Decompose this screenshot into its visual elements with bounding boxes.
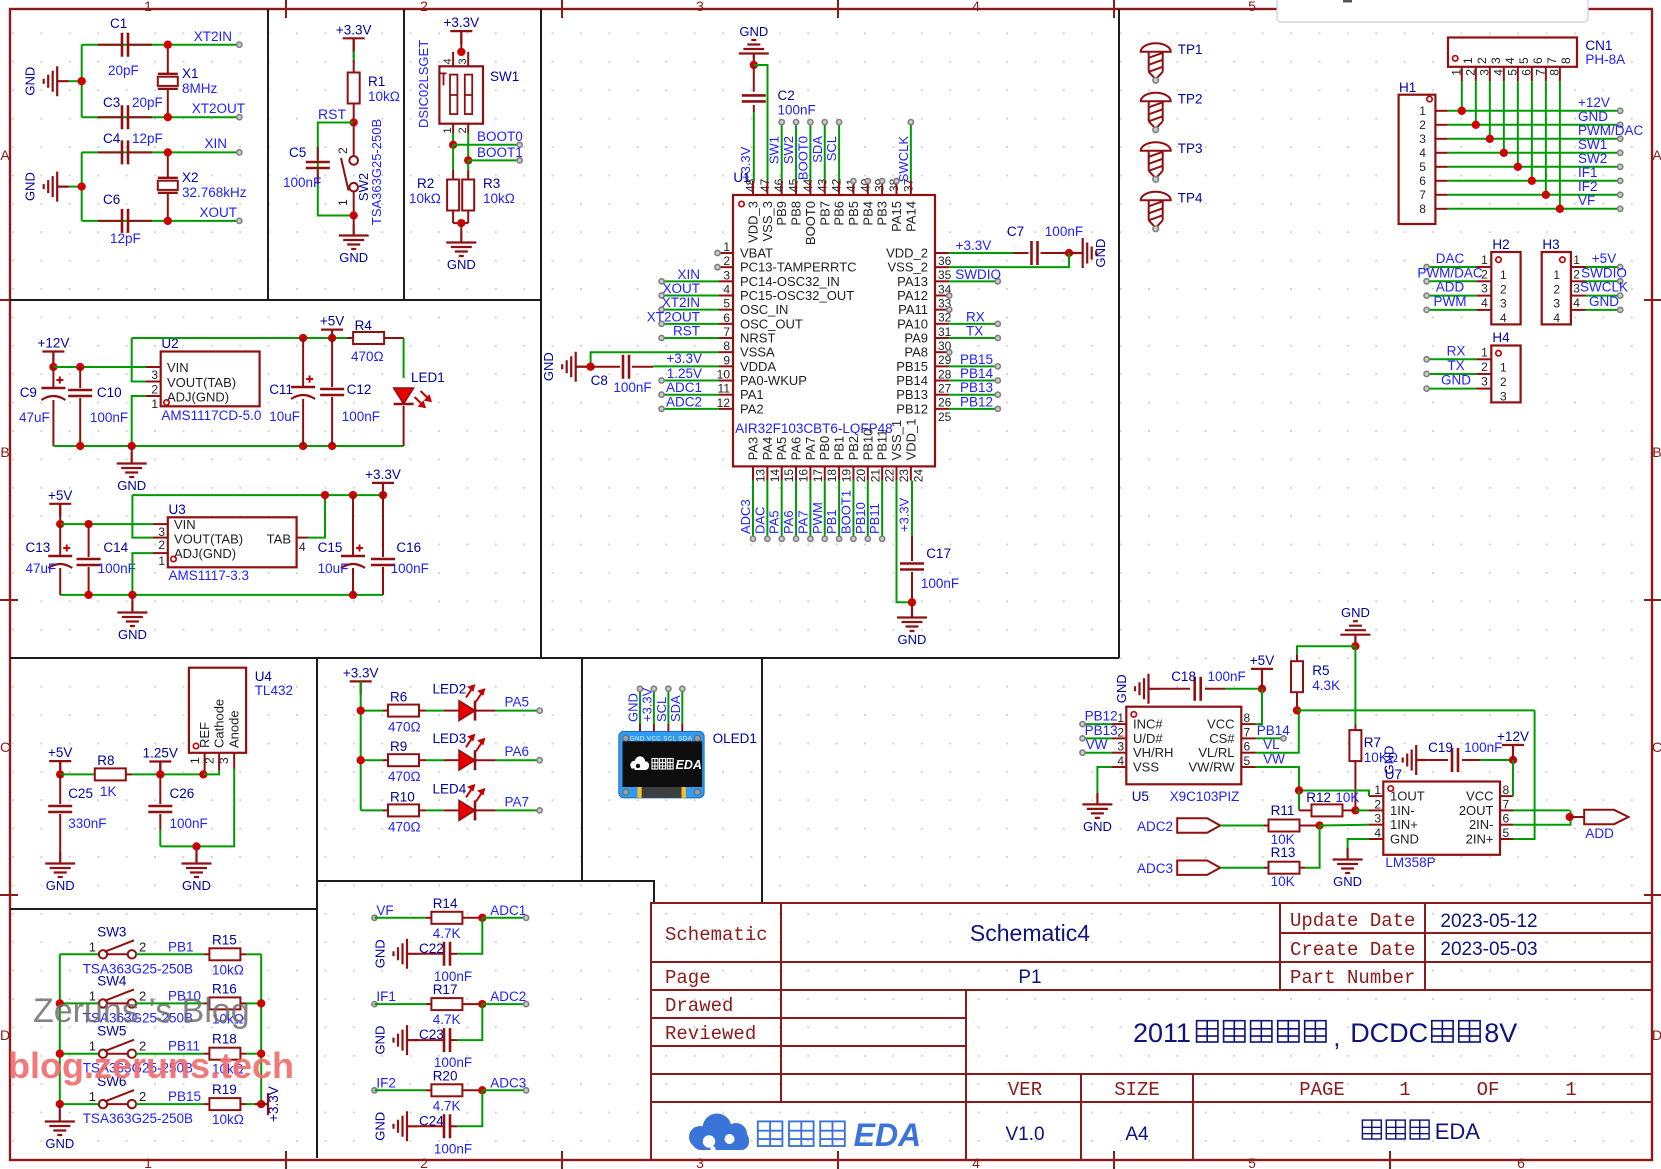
svg-text:Drawed: Drawed: [665, 995, 733, 1017]
svg-text:X2: X2: [182, 170, 199, 185]
svg-text:2IN-: 2IN-: [1469, 817, 1494, 832]
ground GND C18: [1135, 674, 1160, 704]
wire VL rail: [1297, 709, 1535, 711]
svg-text:GND: GND: [1578, 109, 1608, 124]
svg-text:2: 2: [151, 383, 158, 397]
svg-text:1: 1: [1419, 104, 1426, 118]
svg-text:VSS_1: VSS_1: [889, 420, 904, 460]
svg-text:+5V: +5V: [48, 745, 72, 760]
svg-text:+5V: +5V: [320, 314, 344, 329]
svg-text:BOOT1: BOOT1: [838, 490, 853, 534]
ground GND C23: [394, 1025, 419, 1055]
capacitor C2 100nF: [753, 65, 755, 92]
svg-text:8: 8: [1419, 202, 1426, 216]
ground GND U2 block: [131, 446, 133, 452]
oled pin wires: [639, 724, 641, 731]
svg-text:4: 4: [1117, 754, 1124, 768]
svg-text:GND: GND: [182, 878, 211, 893]
svg-text:REF: REF: [197, 722, 212, 748]
voltage reference U4 TL432: [189, 668, 246, 753]
svg-text:Create Date: Create Date: [1290, 939, 1415, 961]
svg-text:PB5: PB5: [846, 201, 861, 226]
svg-text:8: 8: [1503, 783, 1510, 797]
ground GND crystal X2 group: [69, 186, 82, 188]
svg-text:10: 10: [717, 368, 731, 382]
svg-text:4: 4: [299, 540, 306, 554]
pin 29 port: [947, 350, 952, 355]
junction SW1 top: [457, 48, 465, 56]
svg-text:1: 1: [151, 397, 158, 411]
resistor R8 1K: [95, 773, 99, 775]
net port PA5: [537, 708, 542, 713]
svg-text:PB1: PB1: [832, 436, 847, 461]
ground GND R5 top: [1340, 621, 1370, 646]
ground GND top mcu: [739, 40, 769, 65]
wire net SDA pin 43: [824, 122, 826, 181]
svg-text:46: 46: [772, 178, 786, 192]
svg-text:R9: R9: [390, 739, 407, 754]
svg-text:GND: GND: [626, 693, 641, 722]
capacitor C15 10uF: [352, 495, 354, 555]
svg-text:100nF: 100nF: [283, 175, 321, 190]
wire GND H4 pin 3: [1476, 388, 1491, 390]
capacitor C13 47uF: [59, 524, 61, 556]
svg-text:1: 1: [1573, 253, 1580, 267]
svg-text:PA0-WKUP: PA0-WKUP: [740, 373, 807, 388]
svg-text:470Ω: 470Ω: [388, 769, 421, 784]
wire VDD_2 +3.3V pin 36: [949, 252, 1013, 254]
svg-text:4: 4: [1553, 311, 1560, 325]
svg-text:U3: U3: [169, 502, 186, 517]
wire net XIN pin 3: [662, 280, 719, 282]
wire ADC2 pin 12: [662, 408, 719, 410]
capacitor C23 100nF: [450, 1039, 457, 1041]
svg-text:PB8: PB8: [789, 201, 804, 226]
junction XT2IN: [164, 41, 172, 49]
svg-text:43: 43: [815, 178, 829, 192]
junction C15 bottom: [349, 591, 357, 599]
svg-text:ADJ(GND): ADJ(GND): [167, 390, 229, 405]
svg-text:H1: H1: [1399, 80, 1416, 95]
resistor R14 4.7K: [426, 917, 431, 919]
svg-text:VCC: VCC: [1466, 789, 1493, 804]
junction C11 bottom: [299, 442, 307, 450]
svg-text:GND: GND: [1341, 605, 1370, 620]
svg-text:2: 2: [1419, 118, 1426, 132]
svg-text:1.25V: 1.25V: [143, 746, 178, 761]
wire led bus: [360, 681, 362, 810]
ground GND U5: [1082, 793, 1112, 818]
svg-text:VDDA: VDDA: [740, 359, 776, 374]
svg-text:GND: GND: [1589, 294, 1619, 309]
svg-text:C19: C19: [1428, 740, 1453, 755]
resistor R6 470: [361, 710, 383, 712]
wire net SWCLK pin 37: [910, 122, 912, 181]
junction C7 gnd: [1065, 249, 1073, 257]
resistor R10 470: [361, 809, 383, 811]
svg-text:VL/RL: VL/RL: [1198, 745, 1234, 760]
wire net PB1: [135, 953, 204, 955]
svg-text:3: 3: [1489, 57, 1503, 64]
svg-text:PB14: PB14: [896, 373, 928, 388]
svg-text:+3.3V: +3.3V: [956, 238, 992, 253]
net port IF2: [1618, 192, 1623, 197]
net port SW2: [1618, 164, 1623, 169]
junction R11 R13: [1315, 821, 1323, 829]
svg-text:LM358P: LM358P: [1385, 855, 1435, 870]
svg-text:10K: 10K: [1271, 874, 1295, 889]
svg-text:LED4: LED4: [433, 781, 467, 796]
pin 41 port: [851, 178, 856, 183]
resistor R15 10k: [204, 953, 209, 955]
svg-text:U4: U4: [255, 669, 273, 684]
wire 1OUT feedback: [1299, 791, 1369, 797]
svg-text:C10: C10: [97, 385, 122, 400]
svg-text:VIN: VIN: [167, 360, 189, 375]
junction BOOT1: [464, 156, 472, 164]
svg-text:PB7: PB7: [817, 201, 832, 226]
svg-text:PA1: PA1: [740, 387, 764, 402]
ground GND C26: [196, 846, 198, 852]
switch SW3 TSA363G25-250B: [60, 953, 100, 955]
svg-text:SW2: SW2: [781, 136, 796, 164]
svg-text:20pF: 20pF: [132, 95, 163, 110]
svg-text:7: 7: [1244, 725, 1251, 739]
svg-text:R8: R8: [97, 753, 114, 768]
net port XOUT: [237, 218, 242, 223]
svg-text:C13: C13: [26, 540, 51, 555]
net port SW1: [1618, 150, 1623, 155]
svg-text:C6: C6: [103, 192, 120, 207]
pin 1 ADJ U2: [146, 395, 161, 397]
resistor R3: [467, 160, 469, 170]
svg-text:4: 4: [1374, 826, 1381, 840]
wire net PB15: [949, 365, 998, 367]
resistor R16 10k: [204, 1002, 209, 1004]
svg-text:blog.zeruns.tech: blog.zeruns.tech: [8, 1045, 294, 1086]
mcu pin names and numbers: [717, 178, 952, 482]
svg-text:IF2: IF2: [376, 1075, 396, 1090]
input port ADC2: [1177, 818, 1220, 832]
svg-text:4: 4: [972, 1155, 980, 1169]
svg-text:PA5: PA5: [774, 437, 789, 461]
svg-text:INC#: INC#: [1133, 717, 1163, 732]
svg-text:C7: C7: [1007, 224, 1024, 239]
svg-text:21: 21: [868, 469, 882, 483]
power flag +12V U7: [1502, 745, 1524, 758]
wire XT2IN net: [82, 44, 168, 46]
junction 1.25V C26: [156, 770, 164, 778]
svg-text:7: 7: [1503, 797, 1510, 811]
svg-text:25: 25: [938, 410, 952, 424]
junction ADJ gnd: [128, 442, 136, 450]
svg-text:PB10: PB10: [853, 502, 868, 534]
svg-text:100nF: 100nF: [1208, 669, 1246, 684]
capacitor C26 100nF: [159, 774, 161, 804]
svg-text:X1: X1: [182, 66, 199, 81]
mcu top pin stubs: [753, 181, 911, 195]
net port XT2OUT: [237, 115, 242, 120]
net port VF: [372, 915, 377, 920]
resistor R19 10k: [204, 1103, 209, 1105]
svg-text:XT2OUT: XT2OUT: [192, 101, 245, 116]
svg-text:BOOT0: BOOT0: [795, 136, 810, 180]
LED LED1: [403, 338, 405, 378]
svg-text:1: 1: [1481, 345, 1488, 359]
wire feedback to R12: [1298, 791, 1300, 811]
svg-text:+3.3V: +3.3V: [336, 22, 372, 37]
svg-text:D: D: [0, 1027, 10, 1043]
ground GND crystal X1 group: [69, 80, 82, 82]
wire SWDIO pin 34: [949, 280, 998, 282]
wire left vertical X2 group: [81, 152, 83, 221]
svg-text:1IN+: 1IN+: [1390, 817, 1418, 832]
svg-text:VF: VF: [376, 903, 393, 918]
svg-text:PB15: PB15: [960, 352, 993, 367]
wire R13 up to junction: [1305, 826, 1320, 868]
svg-text:PB15: PB15: [168, 1089, 201, 1104]
svg-text:PB13: PB13: [960, 380, 993, 395]
svg-text:TL432: TL432: [255, 683, 293, 698]
svg-text:PA11: PA11: [898, 302, 928, 317]
wire net PA5 pin 15: [781, 481, 783, 539]
svg-text:VL: VL: [1263, 737, 1280, 752]
wire anode to gnd: [160, 768, 234, 846]
svg-text:16: 16: [797, 469, 811, 483]
svg-text:+3.3V: +3.3V: [738, 146, 753, 181]
wire VCC pin8 U7: [1512, 760, 1514, 796]
svg-text:470Ω: 470Ω: [351, 349, 384, 364]
svg-text:+3.3V: +3.3V: [365, 467, 401, 482]
wire RX H4 pin 1: [1476, 358, 1491, 360]
svg-text:100nF: 100nF: [921, 576, 959, 591]
svg-text:R2: R2: [417, 176, 434, 191]
section partition lines: [10, 9, 1119, 1158]
svg-text:24: 24: [911, 469, 925, 483]
junction REF: [199, 770, 207, 778]
svg-text:GND: GND: [1114, 674, 1129, 703]
pin 2 VOUT U2: [146, 381, 161, 383]
svg-text:+5V: +5V: [48, 488, 72, 503]
svg-text:SWCLK: SWCLK: [896, 136, 911, 183]
svg-text:RST: RST: [318, 106, 346, 122]
wire net PB10: [135, 1002, 204, 1004]
wire net PA6: [496, 759, 540, 761]
svg-text:100nF: 100nF: [434, 1141, 472, 1156]
net port ADC1: [482, 917, 526, 919]
net port GND: [1618, 122, 1623, 127]
svg-text:AMS1117-3.3: AMS1117-3.3: [169, 568, 250, 583]
svg-text:GND: GND: [118, 627, 147, 642]
svg-text:PB9: PB9: [774, 201, 789, 226]
svg-text:H3: H3: [1542, 237, 1559, 252]
svg-text:R7: R7: [1364, 735, 1381, 750]
svg-text:PB1: PB1: [824, 509, 839, 534]
wire SWDIO H3 pin 2: [1571, 280, 1586, 282]
svg-text:+12V: +12V: [37, 336, 69, 351]
svg-text:1: 1: [1500, 360, 1507, 374]
junction C15 top: [349, 491, 357, 499]
junction led bus 2: [357, 756, 365, 764]
junction C10 top: [76, 363, 84, 371]
junction RST node: [350, 118, 358, 126]
resistor R12 10K: [1299, 809, 1312, 811]
junction C12 bottom: [328, 442, 336, 450]
svg-text:PA2: PA2: [740, 401, 764, 416]
svg-text:47uF: 47uF: [19, 410, 50, 425]
svg-text:47uF: 47uF: [26, 561, 57, 576]
svg-text:V1.0: V1.0: [1005, 1124, 1044, 1145]
svg-text:Zeruns ’s Blog: Zeruns ’s Blog: [33, 992, 250, 1030]
capacitor C22 100nF: [450, 953, 457, 955]
wire VSS_3 gnd pin 47: [754, 65, 768, 181]
wire net BOOT0 pin 44: [809, 122, 811, 181]
wire net PB10 pin 21: [867, 481, 869, 539]
mcu left pin stubs: [719, 253, 733, 409]
svg-text:P1: P1: [1018, 967, 1041, 988]
wire VSS pin4 to gnd: [1097, 767, 1112, 793]
svg-text:C8: C8: [591, 373, 608, 388]
svg-text:1: 1: [188, 757, 202, 764]
junction BOOT0: [449, 141, 457, 149]
svg-text:12: 12: [717, 396, 731, 410]
svg-text:R10: R10: [390, 789, 415, 804]
svg-text:5: 5: [1419, 160, 1426, 174]
svg-text:VSS_2: VSS_2: [888, 260, 928, 275]
svg-text:2: 2: [1475, 57, 1489, 64]
svg-text:GND: GND: [1083, 819, 1112, 834]
svg-text:U7: U7: [1385, 767, 1402, 782]
svg-text:H4: H4: [1492, 330, 1510, 345]
svg-text:6: 6: [1531, 57, 1545, 64]
svg-text:PB3: PB3: [875, 201, 890, 226]
wire BOOT1 net: [467, 124, 469, 133]
svg-text:PB12: PB12: [960, 394, 993, 409]
svg-text:20pF: 20pF: [108, 63, 139, 78]
svg-text:VSS_3: VSS_3: [760, 201, 775, 241]
svg-text:2: 2: [1553, 282, 1560, 296]
svg-text:100nF: 100nF: [170, 816, 208, 831]
svg-text:3: 3: [1374, 812, 1381, 826]
svg-text:VIN: VIN: [174, 517, 196, 532]
svg-text:10kΩ: 10kΩ: [212, 1112, 244, 1127]
pin 33 port: [947, 293, 952, 298]
svg-text:LED1: LED1: [411, 370, 445, 385]
svg-text:100nF: 100nF: [391, 561, 429, 576]
svg-text:7: 7: [723, 325, 730, 339]
svg-text:GND: GND: [541, 352, 556, 381]
svg-text:VDD_2: VDD_2: [886, 246, 928, 261]
svg-text:PB13: PB13: [1085, 723, 1118, 738]
net port IF1: [372, 1002, 377, 1007]
svg-text:SW1: SW1: [1578, 137, 1607, 152]
svg-text:IF1: IF1: [376, 989, 396, 1004]
svg-text:Page: Page: [665, 967, 711, 989]
svg-text:3: 3: [696, 1155, 704, 1169]
logo JLCEDA: [689, 1114, 749, 1151]
junction left bus: [56, 999, 64, 1007]
svg-text:2: 2: [158, 538, 165, 552]
svg-text:SW2: SW2: [1578, 151, 1607, 166]
junction C16 top: [379, 491, 387, 499]
svg-text:X9C103PIZ: X9C103PIZ: [1170, 789, 1240, 804]
svg-text:TP3: TP3: [1178, 141, 1203, 156]
junction ADJ U3 gnd: [128, 591, 136, 599]
svg-text:Cathode: Cathode: [212, 699, 227, 748]
ground GND SW1 block: [460, 223, 462, 231]
svg-text:PA6: PA6: [505, 744, 530, 759]
svg-text:PWM/DAC: PWM/DAC: [1417, 265, 1482, 280]
svg-text:PA4: PA4: [760, 437, 775, 461]
svg-text:4: 4: [723, 283, 730, 297]
svg-text:PC15-OSC32_OUT: PC15-OSC32_OUT: [740, 288, 854, 303]
svg-text:1: 1: [144, 0, 152, 14]
svg-text:ADC1: ADC1: [490, 903, 526, 918]
wire net BOOT1 pin 20: [852, 481, 854, 539]
wire net XOUT pin 4: [662, 295, 719, 297]
svg-text:1: 1: [1500, 268, 1507, 282]
junction C2 gnd: [750, 61, 758, 69]
svg-text:27: 27: [938, 382, 952, 396]
svg-text:VDD_1: VDD_1: [903, 418, 918, 460]
net port BOOT0: [517, 142, 522, 147]
wire net XT2OUT pin 6: [662, 323, 719, 325]
junction C17 gnd: [908, 598, 916, 606]
net port ADC3: [482, 1089, 526, 1091]
wire left bus switches: [59, 954, 61, 1104]
svg-text:100nF: 100nF: [1045, 224, 1083, 239]
svg-text:R11: R11: [1271, 803, 1295, 818]
svg-text:SWCLK: SWCLK: [1580, 280, 1628, 295]
svg-text:10kΩ: 10kΩ: [212, 962, 244, 977]
svg-text:PA7: PA7: [795, 510, 810, 534]
svg-text:2: 2: [139, 1089, 146, 1104]
svg-text:9: 9: [723, 353, 730, 367]
wire net ADC3 pin 13: [752, 481, 754, 539]
svg-text:4: 4: [1573, 296, 1580, 310]
svg-text:2: 2: [139, 939, 146, 954]
ground GND U3 block: [131, 595, 133, 601]
svg-text:PA10: PA10: [897, 316, 928, 331]
svg-text:+5V: +5V: [1250, 653, 1274, 668]
ground GND C22: [394, 939, 419, 969]
svg-text:ADC3: ADC3: [490, 1075, 526, 1090]
connector H4 header: [1491, 346, 1520, 403]
pin 39 port: [880, 178, 885, 183]
svg-text:3: 3: [696, 0, 704, 14]
svg-text:8: 8: [1244, 711, 1251, 725]
svg-text:R17: R17: [433, 982, 458, 997]
resistor R13 10K: [1264, 867, 1270, 869]
switch SW6 TSA363G25-250B: [60, 1103, 100, 1105]
svg-text:,: ,: [1333, 1022, 1340, 1052]
svg-text:4: 4: [1481, 296, 1488, 310]
junction XOUT: [164, 217, 172, 225]
svg-text:ADC3: ADC3: [1137, 861, 1173, 876]
svg-text:6: 6: [1419, 174, 1426, 188]
svg-text:2: 2: [1500, 375, 1507, 389]
svg-text:2023-05-12: 2023-05-12: [1440, 911, 1537, 932]
svg-text:2: 2: [1374, 797, 1381, 811]
junction XIN: [164, 148, 172, 156]
junction feedback VW: [1295, 786, 1303, 794]
svg-text:DAC: DAC: [752, 507, 767, 534]
wire DAC H2 pin 1: [1476, 266, 1491, 268]
svg-text:3: 3: [1500, 390, 1507, 404]
svg-text:C4: C4: [103, 131, 121, 146]
svg-text:DSIC02LSGET: DSIC02LSGET: [416, 40, 431, 128]
svg-text:A: A: [1652, 147, 1661, 163]
